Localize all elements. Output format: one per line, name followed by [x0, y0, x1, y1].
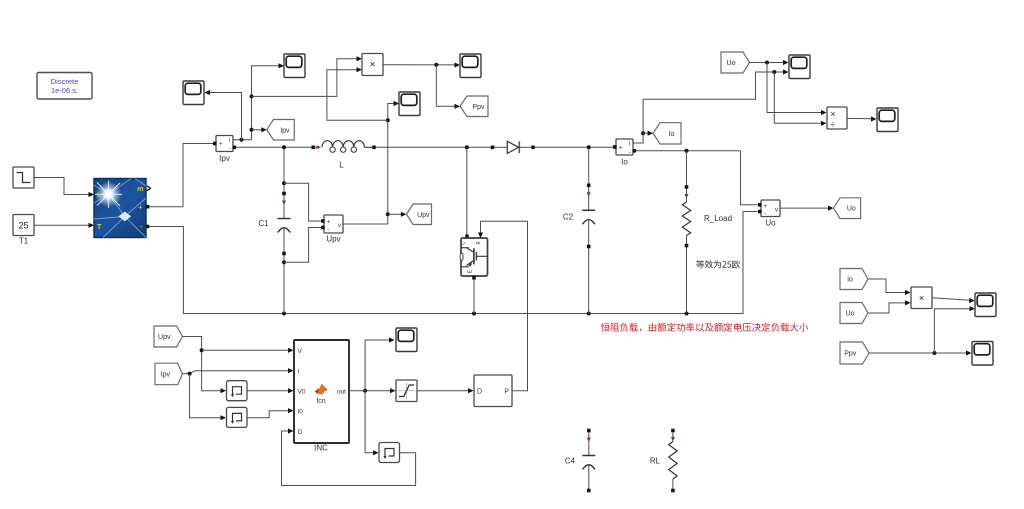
junction rail-IGBT collector	[465, 145, 469, 149]
wire diode to Io measurement	[535, 146, 614, 148]
wire C1 to Upv + input	[284, 183, 322, 221]
powergui block "Discrete 1e-06 s."	[37, 73, 92, 100]
scope resistance	[877, 108, 898, 132]
from tag Ipv bottom	[155, 363, 182, 385]
svg-text:Io: Io	[669, 131, 675, 138]
wire from-Ipv to INC I and Memory2	[182, 368, 293, 374]
product block output power	[911, 287, 932, 309]
wire Io to divide input 2	[774, 72, 826, 126]
wire Uo output to goto	[780, 206, 834, 211]
wire to INC V input	[202, 348, 294, 353]
svg-text:25: 25	[18, 221, 28, 231]
svg-text:C2: C2	[563, 213, 574, 222]
wire to flipped scope	[205, 90, 242, 140]
wire INC out to saturation	[349, 388, 396, 393]
svg-text:C1: C1	[258, 219, 269, 228]
wire from-Io to product	[868, 279, 911, 295]
svg-text:E: E	[467, 269, 473, 273]
junction bus-IGBT emitter	[472, 312, 476, 316]
junction bus-C1	[282, 312, 286, 316]
svg-text:Ir: Ir	[97, 192, 102, 199]
svg-text:m: m	[137, 186, 143, 193]
wire product to scope A	[932, 298, 975, 303]
svg-text:Uo: Uo	[765, 219, 776, 228]
svg-text:Io: Io	[621, 158, 628, 167]
wire to goto Ipv	[252, 127, 267, 132]
svg-text:V: V	[298, 348, 303, 355]
svg-text:fcn: fcn	[316, 398, 325, 405]
svg-text:Ipv: Ipv	[219, 154, 230, 163]
memory block Memory1	[227, 381, 248, 401]
Ipv - output port	[233, 146, 237, 150]
svg-text:v: v	[338, 223, 341, 229]
product block (Ppv)	[362, 54, 383, 76]
current measurement Ipv	[213, 136, 233, 164]
svg-text:out: out	[337, 388, 346, 395]
svg-text:Ppv: Ppv	[844, 351, 857, 358]
svg-text:T1: T1	[19, 237, 29, 246]
wire C1 to Upv - input	[284, 228, 322, 263]
scope Uo Io top right	[789, 55, 810, 79]
wire Uo to divide input 1	[767, 63, 827, 116]
svg-text:V0: V0	[298, 388, 306, 395]
capacitor C4 (unconnected)	[565, 429, 595, 493]
junction Upv-V branch	[200, 348, 204, 352]
resistor R_Load	[682, 151, 732, 314]
junction out-scope/memory branch	[363, 389, 367, 393]
current measurement Io	[613, 139, 633, 167]
from tag Upv	[154, 326, 182, 347]
junction Io-goto branch	[641, 131, 645, 135]
svg-text:L: L	[339, 161, 344, 170]
scope duty	[396, 328, 417, 352]
wire to goto Io	[643, 131, 653, 136]
svg-text:+: +	[219, 141, 223, 148]
wire from-Uo to scope	[750, 60, 789, 65]
wire PWM P to IGBT gate	[478, 221, 528, 391]
svg-text:i: i	[629, 142, 630, 148]
svg-text:Upv: Upv	[326, 235, 340, 244]
svg-text:÷: ÷	[830, 119, 835, 129]
capacitor C2	[563, 149, 595, 314]
svg-text:Upv: Upv	[158, 334, 171, 341]
wire Ppv to scope A input2	[934, 306, 975, 353]
wire PV+ to Ipv measurement	[149, 144, 213, 207]
saturation block	[396, 380, 417, 402]
svg-text:D: D	[477, 388, 482, 395]
red annotation constant resistance load	[601, 323, 808, 332]
wire saturation to PWM	[417, 388, 474, 393]
svg-text:D: D	[298, 429, 303, 436]
wire product to scope Ppv	[383, 62, 460, 67]
svg-text:Uo: Uo	[847, 206, 856, 213]
goto tag Ipv	[267, 120, 295, 141]
junction Upv-goto branch	[386, 212, 390, 216]
svg-text:×: ×	[830, 109, 835, 119]
diode D	[491, 141, 535, 153]
feedback wire Memory3 to INC D	[282, 428, 416, 485]
svg-text:C4: C4	[565, 457, 576, 466]
wire Io i output to goto and upper branch	[633, 69, 789, 143]
svg-text:I0: I0	[298, 408, 304, 415]
PV - output port	[146, 225, 150, 229]
wire PV- bottom return bus	[149, 212, 758, 314]
annotation equivalent 25 ohm	[696, 260, 740, 268]
svg-text:Upv: Upv	[417, 212, 430, 219]
wire rail Ipv- to inductor	[236, 146, 312, 148]
wire from-Uo to product	[868, 300, 911, 313]
PV + output port	[146, 205, 150, 209]
wire Upv output vertical	[343, 101, 399, 224]
from tag Uo bottom	[840, 303, 868, 324]
PV m output port mark	[147, 186, 151, 191]
svg-text:RL: RL	[650, 457, 661, 466]
wire Io- to load and Uo+	[636, 151, 758, 205]
IGBT switch	[460, 149, 487, 314]
svg-text:Ppv: Ppv	[472, 104, 485, 111]
junction Ppv-scopeA branch	[932, 351, 936, 355]
wire Memory2 to INC I0	[247, 408, 294, 418]
junction Uo-divide branch	[765, 61, 769, 65]
wire out to Memory3	[365, 391, 378, 456]
PWM generator block D-P	[474, 375, 512, 407]
svg-text:INC: INC	[314, 444, 328, 453]
svg-text:P: P	[504, 388, 509, 395]
inductor L	[312, 141, 376, 170]
wire to goto Ppv	[436, 65, 460, 109]
wire to Memory2	[190, 374, 226, 421]
scope Upv	[399, 92, 420, 116]
svg-text:Uo: Uo	[846, 311, 855, 318]
voltage measurement Uo	[758, 200, 780, 228]
wire Upv to product input 2	[327, 67, 388, 120]
wire Ipv i output	[233, 63, 284, 140]
memory block Memory2	[227, 407, 248, 427]
wire Ipv to product input 1	[252, 56, 363, 96]
svg-text:v: v	[775, 208, 778, 214]
goto tag Uo	[834, 198, 861, 219]
from tag Ppv bottom	[840, 342, 869, 364]
junction Io- RLoad branch	[685, 149, 689, 153]
svg-text:+: +	[619, 145, 623, 152]
junction C1-Upv+ branch	[282, 181, 286, 185]
junction rail-C1	[282, 145, 286, 149]
svg-text:R_Load: R_Load	[704, 214, 732, 223]
junction C1-Upv- branch	[282, 260, 286, 264]
wire Memory1 to INC V0	[247, 388, 294, 393]
scope Ipv top	[284, 54, 305, 78]
svg-text:-: -	[629, 149, 631, 156]
constant block T1 value 25	[13, 215, 34, 246]
wire to goto Upv	[388, 212, 407, 217]
svg-text:g: g	[475, 241, 481, 244]
goto tag Ppv	[460, 96, 488, 117]
goto tag Upv	[406, 204, 431, 225]
svg-text:+: +	[326, 219, 330, 226]
Io - output port	[633, 149, 637, 153]
svg-text:Ipv: Ipv	[280, 127, 290, 134]
junction Ipv-scope branch	[240, 138, 244, 142]
junction bus-RLoad	[685, 312, 689, 316]
junction bus-C2	[587, 312, 591, 316]
junction Upv-product branch	[386, 118, 390, 122]
svg-text:+: +	[763, 203, 767, 210]
scope Ipv (flipped)	[183, 81, 204, 105]
svg-text:T: T	[97, 224, 102, 231]
wire divide to scope	[847, 116, 877, 121]
from tag Uo top	[721, 52, 750, 73]
wire from-Upv to INC V and Memory1	[182, 337, 226, 394]
svg-text:i: i	[229, 138, 230, 144]
junction Ipv-Memory2 branch	[188, 372, 192, 376]
svg-text:+: +	[138, 205, 142, 212]
scope A output power	[975, 293, 996, 317]
memory block Memory3	[379, 443, 400, 463]
svg-text:-: -	[327, 226, 329, 233]
svg-text:Uo: Uo	[727, 60, 736, 67]
scope Ppv	[460, 54, 481, 78]
resistor RL (unconnected)	[650, 429, 677, 493]
wire from-Ppv to scope B	[869, 350, 972, 355]
wire step to PV Ir input	[34, 178, 94, 198]
junction Ppv-goto branch	[434, 63, 438, 67]
junction rail-C2	[587, 145, 591, 149]
step block (irradiance step)	[13, 167, 34, 188]
junction Ipv-goto branch	[250, 128, 254, 132]
svg-text:-: -	[229, 146, 231, 153]
svg-text:Discrete: Discrete	[51, 77, 79, 86]
svg-text:C: C	[460, 241, 466, 245]
voltage measurement Upv	[321, 215, 343, 244]
divide block Uo/Io	[827, 107, 847, 129]
wire T1 to PV T input	[34, 223, 94, 228]
junction Ipv-product branch	[250, 94, 254, 98]
from tag Io bottom	[840, 269, 868, 290]
svg-text:Ipv: Ipv	[161, 371, 171, 378]
wire inductor to diode	[376, 146, 491, 148]
MATLAB function block INC	[294, 340, 349, 453]
scope B Ppv	[972, 342, 993, 366]
svg-text:I: I	[298, 368, 300, 375]
PV array block	[94, 179, 146, 238]
goto tag Io	[653, 123, 681, 144]
svg-text:×: ×	[370, 60, 376, 71]
svg-text:1e-06 s.: 1e-06 s.	[51, 86, 78, 95]
wire out to scope7	[365, 337, 394, 390]
svg-text:×: ×	[919, 293, 924, 303]
capacitor C1	[258, 149, 290, 314]
junction Io-divide branch	[772, 70, 776, 74]
svg-text:Io: Io	[847, 277, 853, 284]
svg-text:-: -	[764, 210, 766, 217]
